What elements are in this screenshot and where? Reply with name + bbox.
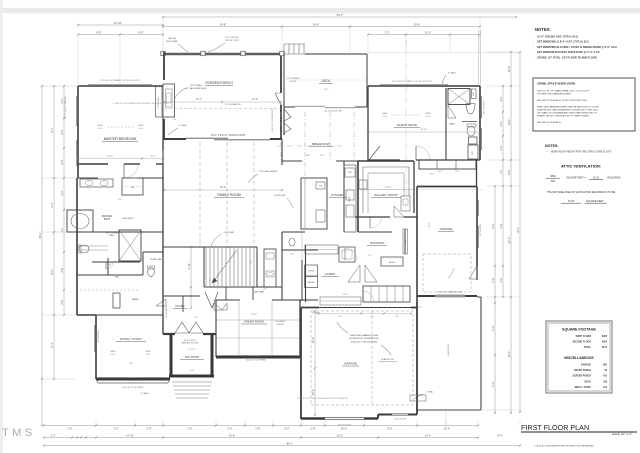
svg-text:4'-0": 4'-0": [151, 156, 156, 158]
svg-text:CATH.: CATH.: [145, 350, 151, 353]
dim right col inner segs: [494, 186, 496, 413]
svg-text:3'-11": 3'-11": [187, 263, 191, 269]
mud lockers row: [363, 286, 410, 302]
scullery outer walls: [357, 161, 359, 232]
svg-text:MEAN ROOF HEIGHT FOR THIS STRU: MEAN ROOF HEIGHT FOR THIS STRUCTURE IS 2…: [551, 151, 612, 154]
big garage south wall mid with 3ft door: [378, 414, 392, 416]
big garage west wall: [300, 308, 302, 420]
svg-text:6'-4": 6'-4": [50, 342, 54, 347]
wet bar cabinet band: [264, 249, 276, 287]
deck outline: [305, 53, 367, 55]
svg-text:SEE (SECTION R408.1).: SEE (SECTION R408.1).: [537, 122, 562, 124]
guest suite north wall: [368, 85, 480, 87]
stair treads: [205, 248, 207, 286]
svg-text:3'-0": 3'-0": [60, 159, 64, 164]
screen porch posts: [161, 51, 165, 55]
svg-text:BATH: BATH: [449, 123, 455, 126]
svg-text:4 X 4 WOOD: 4 X 4 WOOD: [226, 37, 239, 39]
svg-text:MISCELLANEOUS: MISCELLANEOUS: [564, 356, 594, 360]
svg-text:CATH.: CATH.: [382, 112, 388, 115]
svg-text:6'-2": 6'-2": [491, 381, 495, 386]
svg-text:POWD. RM.: POWD. RM.: [150, 259, 162, 261]
screen porch left wall: [163, 52, 165, 80]
viewer left margin strip: [0, 0, 3, 453]
svg-text:COFFERED: COFFERED: [275, 321, 287, 323]
svg-text:5'-10": 5'-10": [343, 294, 348, 296]
svg-text:2'-0": 2'-0": [418, 307, 422, 309]
svg-text:5'-8": 5'-8": [491, 277, 495, 282]
svg-text:CLG.: CLG.: [111, 354, 116, 356]
svg-text:3'-0" X 3'-4" DR: 3'-0" X 3'-4" DR: [394, 419, 406, 421]
east wall of family opening / kitchen divider: [281, 139, 283, 165]
svg-text:7'-0": 7'-0": [67, 427, 72, 431]
svg-text:SQUARE FOOTAGE: SQUARE FOOTAGE: [562, 328, 596, 332]
wic door arc: [105, 262, 107, 269]
svg-text:9'-1": 9'-1": [50, 127, 54, 132]
svg-text:CUBBIES: CUBBIES: [405, 237, 407, 245]
svg-text:6'-8": 6'-8": [108, 264, 112, 266]
deck joists hint: [284, 79, 367, 81]
scullery bottom wall with door: [355, 216, 390, 218]
master bedroom south wall with door openings: [78, 163, 108, 165]
left outer wall bath section: [76, 178, 78, 315]
deck door opening (2) 2'-8x6'-8 DR: [295, 105, 325, 107]
svg-text:8'-0": 8'-0": [387, 427, 392, 431]
front door double leaf triangles: [175, 322, 189, 333]
svg-text:14'-6": 14'-6": [306, 155, 311, 157]
svg-text:7'-0": 7'-0": [113, 427, 118, 431]
small garage west wall: [416, 187, 418, 303]
svg-text:OF FREE VENT AREA REQUIRED: OF FREE VENT AREA REQUIRED: [537, 93, 572, 96]
svg-text:REF: REF: [348, 172, 351, 174]
living study south window wall: [96, 378, 170, 381]
previous page sliver top: [8, 0, 640, 8]
bath wall below tub: [77, 231, 163, 233]
svg-text:10'-2": 10'-2": [311, 337, 315, 344]
svg-text:BOOKCASES: BOOKCASES: [97, 329, 100, 342]
svg-text:BREAKFAST: BREAKFAST: [312, 142, 330, 146]
dining west wall: [215, 300, 217, 357]
living study west wall: [95, 315, 97, 379]
svg-text:SML HS: SML HS: [168, 38, 177, 40]
svg-text:5170: 5170: [602, 347, 608, 349]
svg-text:LINEN ENTRY: LINEN ENTRY: [122, 218, 135, 220]
svg-text:POSTS (TYP.): POSTS (TYP.): [225, 40, 239, 42]
hall east wall segment: [476, 160, 478, 187]
deck steps: [283, 44, 285, 54]
wic shelving column: [113, 293, 120, 308]
svg-text:SECOND FLOOR: SECOND FLOOR: [572, 342, 591, 344]
kitchen hall floor dim: [301, 232, 303, 260]
big garage interior top dim: [319, 313, 411, 315]
title underline: [521, 431, 637, 433]
svg-text:8'-3": 8'-3": [50, 269, 54, 274]
svg-text:GARAGE: GARAGE: [440, 227, 453, 231]
svg-text:20'-0": 20'-0": [220, 187, 226, 189]
dim right col segments: [510, 52, 512, 413]
svg-text:86'-1": 86'-1": [287, 441, 294, 445]
guest bath west wall: [445, 88, 447, 160]
svg-text:2'-4" 2H / 4'-6" FIXED / 2'-4": 2'-4" 2H / 4'-6" FIXED / 2'-4" 2H @ 8'-2…: [392, 81, 432, 83]
svg-text:SQUARE FEET =: SQUARE FEET =: [566, 177, 586, 180]
svg-text:MASTER BEDROOM: MASTER BEDROOM: [104, 137, 137, 141]
master door arc: [123, 164, 125, 178]
family west wall continuation: [162, 139, 164, 150]
svg-text:OPTIONAL BEAMS: OPTIONAL BEAMS: [259, 170, 278, 173]
extension lines bottom: [95, 420, 97, 426]
svg-text:24'-8": 24'-8": [220, 22, 227, 26]
svg-text:DRYER: DRYER: [308, 271, 315, 273]
svg-text:10'-2": 10'-2": [311, 389, 315, 396]
svg-text:OPEN RAIL: OPEN RAIL: [224, 231, 236, 234]
svg-text:WASHER: WASHER: [307, 281, 315, 284]
svg-text:2'-4" 2H / 4'-6" FIXED / 2'-4": 2'-4" 2H / 4'-6" FIXED / 2'-4" 2H @ 8'-2…: [100, 80, 140, 82]
svg-text:PERMIT CROSS- VENTILATION OF C: PERMIT CROSS- VENTILATION OF CRAWL SPACE…: [537, 115, 590, 118]
svg-text:FLUSH CAP: FLUSH CAP: [274, 194, 286, 197]
centerline y189.5: [344, 189, 484, 191]
small garage slab dashed: [423, 254, 471, 292]
svg-text:16'-4": 16'-4": [313, 22, 320, 26]
svg-text:2'-8" SCREEN: 2'-8" SCREEN: [287, 78, 300, 80]
svg-text:8'-5": 8'-5": [138, 30, 143, 34]
svg-text:11'-2": 11'-2": [320, 155, 325, 157]
small garage se door jog: [476, 266, 478, 280]
svg-text:4'-0": 4'-0": [499, 121, 503, 126]
svg-text:TOTAL: TOTAL: [584, 346, 592, 349]
svg-text:19'-8": 19'-8": [414, 22, 421, 26]
svg-text:5'-0": 5'-0": [455, 171, 459, 173]
dim top row overall 54'-7: [163, 16, 516, 18]
svg-text:CLG.: CLG.: [426, 116, 431, 118]
extension lines left: [42, 85, 76, 87]
svg-text:LAUNDRY: LAUNDRY: [325, 273, 336, 276]
svg-text:CEILING: CEILING: [276, 324, 284, 326]
kitchen top wall: [282, 160, 302, 162]
svg-text:17'-10": 17'-10": [251, 314, 257, 316]
svg-text:SLAB SLOPE: SLAB SLOPE: [381, 358, 394, 361]
svg-text:14'-10": 14'-10": [126, 433, 134, 437]
svg-text:6'-2": 6'-2": [491, 325, 495, 330]
svg-text:OF CRAWL FLOOR AREA AND VENTS: OF CRAWL FLOOR AREA AND VENTS ARE INSTAL…: [537, 112, 597, 115]
door leaf at scullery nw: [369, 146, 380, 160]
svg-text:16'-0": 16'-0": [429, 222, 431, 227]
master bath shower: [119, 230, 141, 261]
svg-text:SEE (SECTION R408.1) OF IRC 20: SEE (SECTION R408.1) OF IRC 2018 NCRC 20…: [537, 100, 588, 102]
svg-text:CATH.: CATH.: [425, 112, 431, 115]
svg-text:13'-4": 13'-4": [425, 433, 432, 437]
hall closet row below guest: [419, 160, 476, 169]
svg-text:5'-2": 5'-2": [368, 255, 372, 257]
guest bath sink pedestal: [466, 104, 475, 115]
svg-text:7'-0": 7'-0": [499, 169, 503, 174]
svg-text:AS PER NCRSC 309/E(SECTION): AS PER NCRSC 309/E(SECTION): [349, 337, 379, 340]
svg-text:12'-10": 12'-10": [107, 156, 114, 158]
svg-text:DW: DW: [319, 186, 322, 188]
wic walls: [77, 274, 143, 276]
svg-text:10'-6": 10'-6": [507, 66, 511, 73]
master bedroom west wall: [77, 86, 79, 178]
centerline dashes breakfast: [280, 112, 282, 160]
dim left col window segs: [63, 86, 65, 315]
page gap band: [0, 8, 640, 13]
cov porch left pier: [170, 334, 173, 377]
svg-text:FAMILY ROOM: FAMILY ROOM: [217, 193, 240, 197]
svg-text:2'-2": 2'-2": [50, 433, 55, 437]
west wall step at y315: [77, 314, 96, 316]
mud hall door arcs: [344, 248, 346, 260]
svg-text:STAIRS: 18" (TYP.) , 1ST FLO: STAIRS: 18" (TYP.) , 1ST FLOOR TO 2ND FL…: [537, 55, 597, 59]
bay ledge below: [98, 382, 168, 384]
svg-text:SQUARE FEET.: SQUARE FEET.: [586, 200, 604, 203]
svg-text:8'-0" X 8'-0" W: 8'-0" X 8'-0" W: [480, 224, 482, 236]
svg-text:(2) 2'-8"x6'-8" DR: (2) 2'-8"x6'-8" DR: [325, 111, 342, 113]
wic shelves: [77, 245, 108, 247]
interior dim col at foyer: [190, 247, 192, 308]
master ne bookcase band: [156, 86, 163, 117]
screen porch fireplace (optional): [163, 84, 175, 117]
svg-text:59'-1": 59'-1": [38, 232, 42, 239]
svg-text:22'-0": 22'-0": [507, 237, 511, 244]
breakfast horizontal centerline: [277, 145, 344, 147]
mud bench: [381, 257, 403, 266]
cov porch front wall: [169, 375, 214, 378]
svg-text:GCA-4 (5/8" TYPE X)GYP(GW): GCA-4 (5/8" TYPE X)GYP(GW): [351, 340, 378, 343]
foyer closet angled doors: [205, 292, 212, 308]
small garage door: [435, 294, 465, 296]
svg-text:4562: 4562: [550, 175, 556, 178]
washer dryer stacked: [305, 265, 318, 276]
floor above dashed note: [164, 108, 281, 110]
guest ne vertical extension pair: [478, 30, 480, 86]
hall wall above laundry: [282, 231, 305, 233]
svg-text:2'-6": 2'-6": [499, 223, 503, 228]
svg-text:7'-8": 7'-8": [395, 316, 399, 318]
svg-text:18'-0": 18'-0": [430, 174, 435, 176]
stoop at garage se corner: [410, 395, 426, 401]
guest door arc: [415, 146, 417, 160]
family interior dim line: [164, 189, 282, 191]
svg-text:4'-0": 4'-0": [173, 119, 177, 121]
svg-text:300: 300: [551, 180, 556, 183]
laundry folding counter: [305, 245, 338, 254]
svg-text:WALL: WALL: [109, 234, 115, 237]
svg-text:TMS: TMS: [2, 427, 36, 439]
svg-text:8'-5": 8'-5": [96, 30, 101, 34]
scullery interior dim: [358, 189, 414, 191]
left col down extension: [41, 379, 43, 425]
scullery left appliance: [359, 180, 367, 189]
svg-text:6" WALL: 6" WALL: [179, 124, 188, 127]
bath vanity: [80, 179, 113, 187]
svg-text:12'-0": 12'-0": [425, 30, 432, 34]
top extension line to right dims: [367, 52, 520, 54]
svg-text:LIVING / STUDY: LIVING / STUDY: [120, 337, 143, 341]
svg-text:3'-8": 3'-8": [60, 267, 64, 272]
svg-text:CLG.: CLG.: [139, 128, 144, 130]
dining coffered ceiling grid: [238, 301, 240, 356]
svg-text:3'-0": 3'-0": [284, 427, 289, 431]
svg-text:NOTES:: NOTES:: [535, 27, 551, 32]
svg-text:COV. PORCH: COV. PORCH: [185, 357, 200, 359]
dim right col window segs: [502, 86, 504, 297]
svg-text:10'-0" 3'-8"x6'-8" SLIDING DOO: 10'-0" 3'-8"x6'-8" SLIDING DOOR: [211, 135, 245, 137]
guest suite east outer wall: [479, 86, 481, 160]
porch bottom wall / sliding door: [163, 138, 186, 140]
stair top wall: [163, 246, 257, 248]
svg-text:3'-0": 3'-0": [290, 254, 294, 256]
svg-text:CLG.: CLG.: [98, 128, 103, 130]
dim bottom overall 86'-1: [44, 445, 520, 447]
corridor wall x302: [301, 260, 303, 301]
breakfast west door to deck leafs: [283, 107, 285, 135]
svg-text:13'-0": 13'-0": [129, 363, 134, 365]
svg-text:3'-0": 3'-0": [370, 316, 374, 318]
driveway east edge: [480, 297, 482, 410]
cov porch right pier: [211, 334, 214, 377]
svg-text:13'-8": 13'-8": [229, 433, 236, 437]
svg-text:ATTIC VENTILATION:: ATTIC VENTILATION:: [561, 164, 601, 169]
svg-text:BATH: BATH: [104, 218, 110, 221]
svg-text:6'-0": 6'-0": [190, 370, 194, 372]
svg-text:GUEST SUITE: GUEST SUITE: [397, 123, 417, 127]
svg-text:12'-10": 12'-10": [421, 129, 428, 131]
kitchen island: [301, 178, 327, 229]
big garage south wall left with 16ft door: [301, 417, 325, 419]
svg-text:4" WALL: 4" WALL: [448, 72, 457, 75]
guest dim interior: [368, 131, 480, 133]
svg-text:FRONT PORCH: FRONT PORCH: [574, 370, 591, 372]
svg-text:15.20: 15.20: [593, 177, 600, 180]
svg-text:BENCH: BENCH: [389, 262, 396, 264]
powder2 walls: [281, 232, 283, 260]
svg-text:FIRST FLOOR PLAN: FIRST FLOOR PLAN: [521, 423, 589, 432]
stair east wall: [256, 247, 258, 287]
extension lines top: [162, 17, 164, 52]
powder2 toilet: [289, 238, 295, 246]
guest suite west wall: [367, 86, 369, 161]
stair dn arrow: [212, 250, 237, 283]
foyer nw corner door leaves: [156, 299, 166, 306]
kitchen counter and range wall: [343, 161, 345, 232]
svg-text:7'-4": 7'-4": [251, 260, 253, 264]
svg-text:FLOOR ABOVE: FLOOR ABOVE: [225, 103, 241, 106]
master wc toilet: [79, 245, 89, 253]
living study east wall: [162, 315, 164, 332]
svg-text:WIC: WIC: [115, 277, 120, 279]
svg-text:12'-4": 12'-4": [444, 427, 451, 431]
garage south step: [377, 415, 379, 419]
svg-text:2'-6": 2'-6": [60, 299, 64, 304]
svg-text:SET WINDOWS IN LIVING / STUDY: SET WINDOWS IN LIVING / STUDY & DINING R…: [537, 45, 618, 49]
hall south wall below master: [78, 177, 98, 179]
refrig: [345, 168, 355, 177]
svg-text:SLAB SLOPE: SLAB SLOPE: [447, 343, 450, 355]
svg-text:10'-0": 10'-0": [252, 98, 258, 101]
powder room walls: [143, 251, 163, 253]
svg-text:2'-8": 2'-8": [255, 427, 260, 431]
big garage interior left dim: [314, 311, 316, 415]
guest suite south wall: [368, 159, 400, 161]
svg-text:2'-8": 2'-8": [310, 427, 315, 431]
svg-text:2'-0" X 3'-0" @ 7'-4": 2'-0" X 3'-0" @ 7'-4": [484, 99, 486, 114]
svg-text:CRAWL SPACE VENTILATION: CRAWL SPACE VENTILATION: [537, 82, 575, 86]
svg-text:3'-2": 3'-2": [60, 98, 64, 103]
foyer west closets: [162, 287, 164, 334]
svg-text:HERS: HERS: [132, 299, 139, 301]
dining south window wall: [216, 356, 300, 359]
svg-text:REQUIRED: REQUIRED: [607, 177, 620, 180]
extension lines right: [486, 51, 520, 53]
svg-text:1059 SQ. FT. OF CRAWL AREA /: 1059 SQ. FT. OF CRAWL AREA / 150 = 21.19…: [537, 90, 590, 93]
svg-text:BOOKCASES: BOOKCASES: [157, 96, 160, 107]
corridor stubs below stairs: [225, 287, 227, 300]
svg-text:3'-0": 3'-0": [227, 427, 232, 431]
dim top row master 8'-5 8'-5: [78, 34, 163, 36]
svg-text:CLG.: CLG.: [383, 116, 388, 118]
svg-text:(OPTIONAL): (OPTIONAL): [190, 84, 203, 87]
svg-text:CATH.: CATH.: [97, 124, 103, 127]
dim bottom row mid segments: [44, 437, 478, 439]
slab dashed rect big garage: [311, 311, 413, 405]
svg-text:DECK: DECK: [322, 79, 332, 83]
svg-text:-: -: [533, 51, 534, 54]
centerline x406: [405, 40, 407, 213]
driveway north edge: [477, 296, 481, 298]
svg-text:© 2024 BY SOUTHERN HOME DESIGN: © 2024 BY SOUTHERN HOME DESIGNS; INCORPO…: [113, 102, 168, 105]
wic divider wall: [92, 261, 140, 263]
crawl space ventilation box: [533, 78, 635, 131]
front wall with door: [163, 333, 175, 335]
svg-text:42" GAS FIREPLACE: 42" GAS FIREPLACE: [185, 87, 207, 90]
scullery counters U: [362, 167, 364, 213]
svg-text:DECK: DECK: [584, 381, 591, 383]
svg-text:4" WALL: 4" WALL: [426, 391, 433, 394]
screen porch right wall: [280, 56, 282, 93]
svg-text:CATH.: CATH.: [138, 124, 144, 127]
svg-text:3'-2": 3'-2": [499, 145, 503, 150]
svg-text:(2) 2'-4" X 2'-6" FIXED: (2) 2'-4" X 2'-6" FIXED: [123, 387, 144, 389]
svg-text:16'-7": 16'-7": [196, 98, 202, 101]
svg-text:16'-0" X 8'-0" DR: 16'-0" X 8'-0" DR: [338, 424, 352, 426]
svg-text:-: -: [533, 46, 534, 49]
svg-text:24'-0": 24'-0": [507, 119, 511, 126]
svg-text:© 2024 BY SOUTHERN HOME DESIGN: © 2024 BY SOUTHERN HOME DESIGNS; INCORPO…: [534, 445, 594, 448]
driveway extension line: [445, 410, 447, 428]
hall south wall to garage: [300, 299, 318, 301]
hers closet walls: [96, 314, 163, 316]
laundry sink box: [339, 247, 355, 262]
svg-text:7'-0": 7'-0": [187, 427, 192, 431]
shower seat: [472, 89, 477, 99]
svg-text:10'-0" CEILING HGT. (TYP.) U.N: 10'-0" CEILING HGT. (TYP.) U.N.O.: [537, 35, 579, 39]
linen niche: [469, 137, 478, 144]
driveway south edge: [417, 409, 481, 411]
screen porch heavy top wall: [163, 53, 282, 56]
dining top stubs: [216, 299, 240, 301]
svg-text:FREE VENT AREA REQUIRED MAY BE: FREE VENT AREA REQUIRED MAY BE REDUCED T…: [537, 106, 599, 109]
svg-text:16'-10": 16'-10": [114, 21, 122, 25]
svg-text:8'-0": 8'-0": [118, 199, 122, 201]
svg-text:30'-0": 30'-0": [507, 351, 511, 358]
svg-text:NOTES:: NOTES:: [545, 144, 559, 148]
svg-text:CATH.: CATH.: [110, 350, 116, 353]
dim top row master 16'-10: [78, 24, 163, 26]
garage entry door arc: [362, 291, 364, 302]
mud room north wall: [358, 231, 392, 233]
svg-text:SET WINDOWS @ 8'-0" A.F.F. (TY: SET WINDOWS @ 8'-0" A.F.F. (TYP.) U.N.O.: [537, 40, 589, 44]
dining nw corner door leaves: [214, 303, 222, 310]
svg-text:(2) 2'-8"X8'-0": (2) 2'-8"X8'-0": [184, 340, 197, 342]
